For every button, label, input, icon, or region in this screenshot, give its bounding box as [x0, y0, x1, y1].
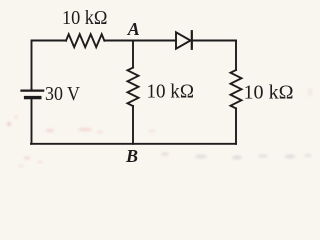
battery V1 long plate (+) [22, 89, 44, 91]
wire right wall upper segment [235, 41, 237, 71]
battery V1 top wire stub [31, 89, 33, 90]
wire R1 to node A [104, 40, 133, 42]
resistor R2 10 kOhm (middle vertical zigzag) [128, 68, 139, 106]
resistor R3 10 kOhm (right vertical zigzag) [231, 70, 242, 108]
wire top-left horizontal (left corner to resistor R1) [32, 41, 67, 90]
wire middle branch lower (B to R2) [132, 106, 134, 144]
node A junction / wire A to diode [133, 40, 176, 42]
resistor R1 10 kOhm (top horizontal zigzag) [66, 34, 104, 47]
svg-text:10 kΩ: 10 kΩ [62, 7, 108, 29]
wire right wall lower segment [235, 108, 237, 143]
battery V1 short plate (-) [26, 96, 40, 99]
svg-text:B: B [125, 146, 138, 166]
wire diode to top-right corner [192, 40, 236, 42]
diode D1 cathode bar [191, 31, 193, 49]
svg-text:10 kΩ: 10 kΩ [244, 82, 294, 104]
diode D1 triangle (anode) [176, 32, 191, 48]
svg-text:30 V: 30 V [45, 83, 80, 105]
battery V1 bottom wire stub [31, 99, 33, 144]
svg-text:A: A [127, 19, 140, 39]
wire middle branch upper (R2 to node A) [132, 41, 134, 68]
paper background [0, 0, 317, 170]
wire bottom horizontal [31, 143, 236, 145]
svg-text:10 kΩ: 10 kΩ [147, 80, 195, 102]
